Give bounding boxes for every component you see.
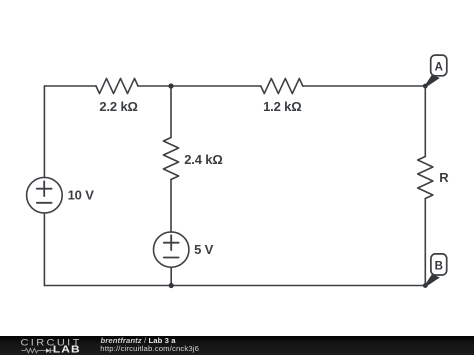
wire left vertical lower (V1 bottom to bottom corner) [43,213,45,286]
footer bar [0,336,474,355]
wire top-right segment (R 1.2k to terminal A corner) [303,85,426,87]
svg-text:2.4 kΩ: 2.4 kΩ [184,152,222,167]
wire top-middle segment (node to R 1.2k) [138,85,261,87]
V2 minus sign [164,257,179,259]
wire left vertical upper (corner to V1 top) [43,86,45,178]
wire middle vertical mid (R 2.4k to V2 top) [170,180,172,233]
junction dot bottom node [169,283,174,288]
resistor R zigzag (vertical) [418,157,433,199]
wire middle vertical lower (V2 bottom to bottom rail) [170,267,172,285]
voltage source V2 5V circle [154,232,189,267]
svg-text:B: B [435,260,443,272]
resistor 1.2 kOhm zigzag [261,78,303,93]
node A box [431,55,447,76]
footer line 2: url [100,344,199,353]
footer line 1: author / title [101,336,176,345]
junction dot top node [168,83,173,88]
wire middle vertical upper (top node to R 2.4k) [170,86,172,138]
svg-text:5 V: 5 V [194,242,214,257]
wire bottom rail [44,285,425,287]
terminal A dot [423,84,428,89]
terminal B dot [423,283,428,288]
wire right vertical upper (terminal A to resistor R) [424,86,426,157]
wire right vertical lower (resistor R to terminal B) [424,199,426,286]
resistor 2.2 kOhm zigzag [96,78,138,93]
CircuitLab logo [0,336,90,355]
V2 plus sign [164,235,179,250]
svg-text:LAB: LAB [53,345,81,355]
terminal A pointer tail [425,75,440,87]
svg-text:A: A [435,62,443,74]
logo squiggle resistor [22,348,46,352]
svg-text:R: R [439,170,449,185]
svg-text:10 V: 10 V [68,187,95,202]
V1 minus sign [37,202,52,204]
logo diode [46,348,50,353]
node B box [431,254,447,275]
voltage source V1 10V circle [27,177,63,213]
svg-text:2.2 kΩ: 2.2 kΩ [99,99,137,114]
wire top-left segment (left corner to R 2.2k) [44,85,96,87]
svg-text:1.2 kΩ: 1.2 kΩ [263,99,301,114]
terminal B pointer tail [425,274,440,286]
V1 plus sign [37,181,52,196]
resistor 2.4 kOhm zigzag (vertical) [163,138,178,180]
